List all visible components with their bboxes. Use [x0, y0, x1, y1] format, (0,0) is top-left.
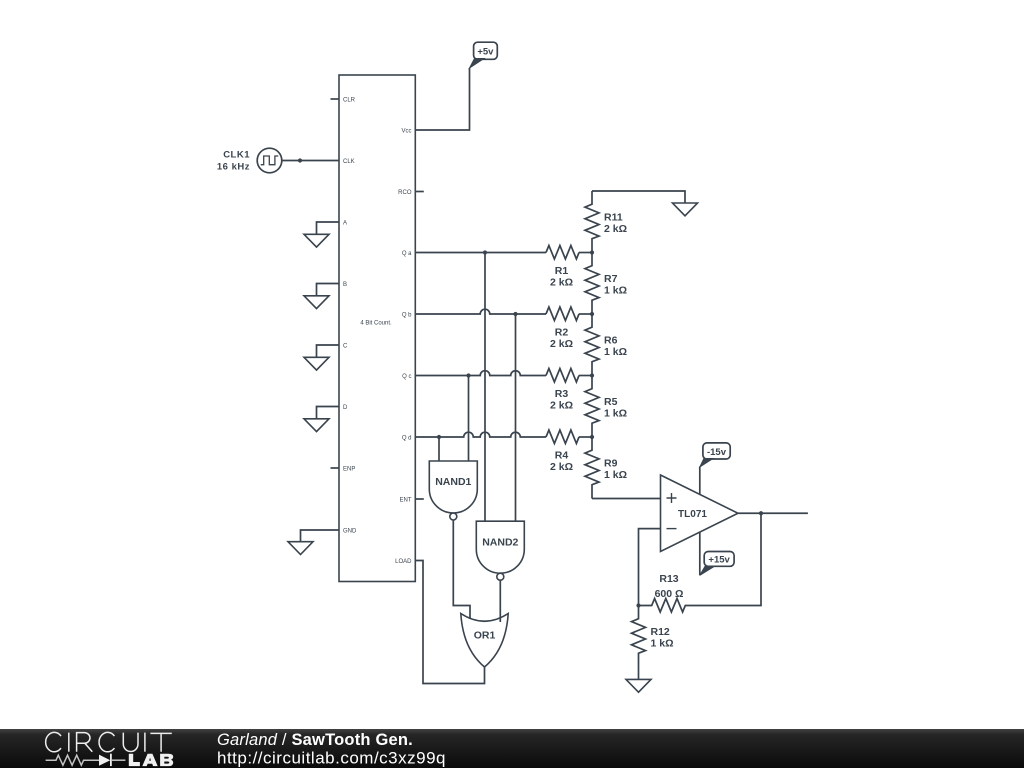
svg-text:ENT: ENT [400, 497, 412, 503]
CLK1 value label 16 kHz [217, 162, 250, 173]
logo LAB text [129, 754, 173, 766]
svg-text:OR1: OR1 [474, 629, 496, 641]
NAND1 label [435, 476, 471, 488]
logo CIRCUIT lettering [46, 732, 172, 751]
svg-text:R6: R6 [604, 334, 618, 346]
wire Qd junction down to NAND1 input A [438, 437, 440, 461]
wire R9 to op-amp non-inverting input [592, 498, 661, 500]
svg-text:2 kΩ: 2 kΩ [550, 338, 573, 350]
wire NAND2 output to OR1 input B [499, 580, 501, 622]
wire Qd row (hops over x=468.5, 485, 515.5) [415, 432, 546, 437]
svg-text:RCO: RCO [398, 190, 412, 196]
svg-text:R7: R7 [604, 273, 618, 285]
pin D label [343, 405, 348, 411]
svg-text:1 kΩ: 1 kΩ [604, 284, 627, 296]
svg-text:A: A [343, 220, 347, 226]
wire pin GND to ground [301, 530, 340, 542]
pin B label [343, 282, 347, 288]
wire R4 to node [579, 436, 592, 438]
resistor R11 [585, 191, 599, 253]
svg-text:2 kΩ: 2 kΩ [550, 461, 573, 473]
ground at pin C [304, 357, 329, 370]
clock source CLK1 [257, 148, 282, 173]
resistor R7 [585, 253, 599, 314]
svg-text:R2: R2 [555, 327, 569, 339]
-15v flag [700, 443, 730, 467]
svg-text:R4: R4 [555, 450, 569, 462]
FOOTER [0, 729, 1024, 768]
+15v flag [700, 552, 734, 576]
R12 value label [651, 637, 674, 649]
footer title Garland / SawTooth Gen. [217, 731, 413, 749]
OR1 label [474, 629, 496, 641]
svg-text:2 kΩ: 2 kΩ [550, 399, 573, 411]
wire OR1 output to LOAD pin [415, 561, 484, 684]
svg-text:-15v: -15v [707, 447, 727, 458]
op-amp U2 TL071 [661, 475, 739, 552]
svg-text:R9: R9 [604, 457, 618, 469]
wire R1 to node [579, 252, 592, 254]
resistor R2 [546, 307, 579, 321]
svg-text:2 kΩ: 2 kΩ [550, 276, 573, 288]
ground at pin D [304, 419, 329, 432]
ground at R11 [673, 203, 698, 216]
wire R12 to ground [638, 667, 640, 679]
CLK1 name label [223, 150, 250, 161]
svg-text:1 kΩ: 1 kΩ [604, 346, 627, 358]
svg-text:CLK: CLK [343, 159, 355, 165]
ground at pin A [304, 234, 329, 247]
svg-text:ENP: ENP [343, 466, 355, 472]
junction feedback/R12 node [636, 603, 640, 607]
logo resistor-diode schematic [46, 754, 126, 766]
wire pin D to ground [317, 407, 340, 420]
wire op-amp inverting input to feedback node [639, 529, 661, 606]
junction R3/R6/R5 node [590, 373, 594, 377]
NAND1 input wires already drawn; gate NAND1 [429, 461, 477, 520]
pin CLK label [343, 159, 355, 165]
pin GND label [343, 528, 357, 534]
junction R4/R5/R9 node [590, 435, 594, 439]
junction Qa-NAND2 branch [483, 250, 487, 254]
R12 name label [651, 626, 670, 638]
gate NAND2 [476, 521, 524, 580]
wire Qa junction down to NAND2 input A [484, 253, 486, 523]
pin LOAD label [395, 559, 412, 565]
pin Qc label [402, 374, 411, 380]
wire pin B to ground [317, 284, 340, 297]
junction on CLK wire [298, 158, 302, 162]
wire Qa row [415, 252, 546, 254]
+5v flag [470, 42, 498, 68]
wire Qb row (hop over x=485) [415, 309, 546, 314]
footer url [217, 749, 446, 768]
gate OR1 [461, 614, 508, 668]
wire R11 top to ground [592, 191, 685, 203]
IC name label 4 Bit Count. [360, 320, 392, 326]
wire Qc row (hops over x=485, x=515.5) [415, 371, 546, 376]
junction output/feedback node [759, 511, 763, 515]
pin ENT label [400, 497, 412, 503]
wire op-amp output [738, 512, 808, 514]
ground at pin GND [288, 542, 313, 555]
svg-text:Q a: Q a [402, 251, 412, 257]
R4 name label [555, 450, 569, 462]
svg-text:16 kHz: 16 kHz [217, 162, 250, 173]
svg-text:R11: R11 [604, 211, 623, 223]
junction Qb-NAND2 branch [513, 312, 517, 316]
svg-text:+5v: +5v [477, 47, 494, 58]
junction R1/R11/R7 node [590, 250, 594, 254]
pin Qa label [402, 251, 412, 257]
svg-text:NAND1: NAND1 [435, 476, 471, 488]
R13 value label [655, 588, 684, 600]
wire Vcc to +5v [415, 68, 469, 130]
wire R2 to node [579, 313, 592, 315]
pin RCO label [398, 190, 412, 196]
ground at R12 [626, 679, 651, 692]
svg-text:600 Ω: 600 Ω [655, 588, 684, 600]
R3 name label [555, 388, 569, 400]
svg-text:NAND2: NAND2 [482, 536, 518, 548]
R11 name label [604, 211, 623, 223]
resistor R4 [546, 430, 579, 444]
wire R3 to node [579, 375, 592, 377]
svg-text:R3: R3 [555, 388, 569, 400]
NAND2 label [482, 536, 518, 548]
resistor R9 [585, 437, 599, 498]
pin Vcc label [401, 128, 411, 134]
wire NAND1 output to OR1 input A [453, 520, 470, 619]
R6 value label [604, 346, 627, 358]
svg-text:Q d: Q d [402, 435, 412, 441]
R4 value label [550, 461, 573, 473]
R1 name label [555, 265, 569, 277]
wire Qc junction down to NAND1 input B [468, 376, 470, 462]
pin Qb label [402, 312, 412, 318]
svg-text:Q b: Q b [402, 312, 412, 318]
svg-text:R1: R1 [555, 265, 569, 277]
resistor R5 [585, 376, 599, 437]
R9 value label [604, 469, 627, 481]
R1 value label [550, 276, 573, 288]
junction R2/R7/R6 node [590, 312, 594, 316]
wire op-amp V+ pin to -15v flag [699, 467, 701, 495]
wire Qb junction down to NAND2 input B [515, 314, 517, 522]
svg-text:Vcc: Vcc [401, 128, 411, 134]
resistor R6 [585, 314, 599, 375]
R7 name label [604, 273, 618, 285]
svg-text:1 kΩ: 1 kΩ [651, 637, 674, 649]
svg-text:R12: R12 [651, 626, 670, 638]
svg-text:1 kΩ: 1 kΩ [604, 469, 627, 481]
svg-text:+15v: +15v [708, 555, 730, 566]
R13 name label [659, 573, 678, 585]
R2 value label [550, 338, 573, 350]
R5 name label [604, 396, 618, 408]
R11 value label [604, 223, 627, 235]
svg-text:R5: R5 [604, 396, 618, 408]
svg-text:http://circuitlab.com/c3xz99q: http://circuitlab.com/c3xz99q [217, 749, 446, 768]
svg-text:LOAD: LOAD [395, 559, 412, 565]
pin ENT stub [415, 498, 424, 500]
pin CLR label [343, 97, 356, 103]
junction Qc-NAND1 branch [466, 373, 470, 377]
resistor R12 [632, 606, 646, 667]
wire op-amp V- pin to +15v flag [699, 533, 701, 576]
svg-text:2 kΩ: 2 kΩ [604, 223, 627, 235]
resistor R3 [546, 369, 579, 383]
svg-text:B: B [343, 282, 347, 288]
resistor R13 [639, 599, 701, 613]
TL071 label [678, 509, 707, 520]
R6 name label [604, 334, 618, 346]
svg-text:D: D [343, 405, 348, 411]
pin Qd label [402, 435, 412, 441]
svg-text:GND: GND [343, 528, 357, 534]
R9 name label [604, 457, 618, 469]
wire pin C to ground [317, 345, 340, 358]
svg-text:R13: R13 [659, 573, 678, 585]
pin CLR stub [331, 98, 340, 100]
svg-text:C: C [343, 343, 348, 349]
svg-text:Q c: Q c [402, 374, 411, 380]
wire CLK1 to CLK pin [282, 160, 339, 162]
ground at pin B [304, 296, 329, 309]
R3 value label [550, 399, 573, 411]
pin ENP stub [331, 467, 340, 469]
resistor R1 [546, 246, 579, 260]
pin C label [343, 343, 348, 349]
pin RCO stub [415, 191, 424, 193]
svg-text:CLR: CLR [343, 97, 356, 103]
svg-text:Garland / SawTooth Gen.: Garland / SawTooth Gen. [217, 731, 413, 749]
pin A label [343, 220, 347, 226]
svg-text:CLK1: CLK1 [223, 150, 250, 161]
svg-text:TL071: TL071 [678, 509, 707, 520]
wire pin A to ground [317, 222, 340, 235]
R5 value label [604, 407, 627, 419]
junction Qd-NAND1 branch [437, 435, 441, 439]
counter IC U1 body [339, 75, 415, 582]
R7 value label [604, 284, 627, 296]
svg-text:1 kΩ: 1 kΩ [604, 407, 627, 419]
pin ENP label [343, 466, 355, 472]
R2 name label [555, 327, 569, 339]
wire feedback from output down to R13 [700, 513, 761, 605]
svg-text:4 Bit Count.: 4 Bit Count. [360, 320, 392, 326]
